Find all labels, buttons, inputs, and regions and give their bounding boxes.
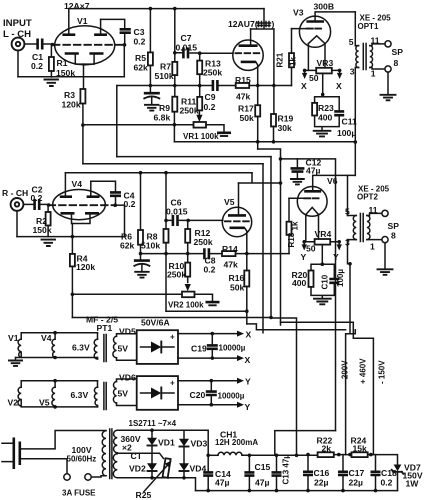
HV bottom wire — [117, 478, 195, 491]
long node wire y85.5 — [117, 85, 292, 87]
svg-text:3A FUSE: 3A FUSE — [62, 489, 96, 498]
AC plug — [2, 443, 12, 461]
svg-text:11: 11 — [371, 36, 380, 46]
svg-text:6.3V: 6.3V — [72, 343, 90, 353]
resistor R8 — [165, 173, 167, 229]
V4 plate left — [60, 195, 72, 198]
resistor R24 — [352, 452, 368, 457]
wire C3 to grid line, down to ground bus — [123, 34, 125, 77]
winding V2 — [18, 387, 21, 406]
V4 cathode — [61, 212, 100, 215]
input shield down — [16, 211, 18, 237]
svg-text:V4: V4 — [41, 333, 52, 343]
svg-text:8: 8 — [391, 231, 396, 241]
top rail stage R — [65, 172, 252, 174]
svg-text:+: + — [170, 333, 175, 342]
svg-text:R14: R14 — [222, 244, 238, 254]
V3 filament — [308, 36, 325, 44]
tube V4 envelope — [53, 190, 106, 220]
svg-text:11: 11 — [369, 205, 378, 215]
PT1 core main — [110, 429, 112, 479]
svg-text:15k: 15k — [353, 444, 368, 454]
capacitor C4 — [110, 192, 121, 195]
resistor R22 — [318, 452, 334, 457]
resistor R6 — [140, 173, 142, 230]
VR3 wiper down — [322, 73, 324, 96]
resistor R14 (horizontal) — [222, 251, 236, 256]
capacitor C9 — [213, 80, 218, 91]
R6 bypass cap — [139, 252, 143, 256]
wire C1 to grid node — [44, 43, 53, 45]
capacitor C6 + wire — [164, 219, 168, 223]
V3 plate wire to OPT1 — [316, 11, 355, 13]
svg-text:SP: SP — [392, 47, 404, 57]
svg-text:50k: 50k — [230, 283, 245, 293]
winding V5b — [52, 387, 55, 406]
Y output wires — [178, 380, 239, 382]
svg-text:5: 5 — [345, 207, 350, 217]
R4 feedback line — [72, 317, 271, 319]
V1 plate left — [62, 33, 75, 36]
R23/C11 box — [315, 97, 340, 131]
svg-text:47µ: 47µ — [215, 478, 230, 488]
svg-text:400: 400 — [292, 278, 307, 288]
VR2 pot — [182, 292, 195, 298]
B+ bus down — [349, 264, 351, 333]
svg-text:C17: C17 — [349, 468, 365, 478]
bridge rectifier VD5 — [137, 330, 178, 364]
svg-text:22µ: 22µ — [314, 478, 329, 488]
resistor R2 — [47, 205, 49, 212]
svg-text:X: X — [301, 81, 307, 91]
svg-text:3: 3 — [350, 67, 355, 77]
svg-text:0.2: 0.2 — [134, 37, 146, 47]
svg-text:47k: 47k — [236, 92, 251, 102]
node line y142.5 — [174, 141, 355, 143]
ground — [42, 240, 56, 246]
capacitor C20 — [210, 379, 214, 383]
VR3 pot — [316, 68, 332, 74]
capacitor C14 — [207, 455, 209, 490]
junction R8-rail — [164, 171, 168, 175]
svg-text:C3: C3 — [134, 27, 145, 37]
svg-text:VR3: VR3 — [317, 58, 334, 68]
svg-text:V5: V5 — [224, 197, 235, 207]
VR1 line from R3 node — [83, 124, 194, 126]
svg-text:OPT1: OPT1 — [358, 22, 379, 31]
svg-text:12AU7(: 12AU7( — [228, 19, 258, 29]
capacitor C3 — [120, 29, 131, 32]
V1 grid dashed — [53, 44, 123, 46]
svg-text:- 200V: - 200V — [341, 360, 350, 384]
svg-text:Y: Y — [301, 252, 307, 262]
svg-text:1S2711 ~7×4: 1S2711 ~7×4 — [129, 419, 177, 428]
OPT1 core — [363, 44, 366, 70]
input jack J2 — [11, 198, 24, 211]
svg-text:VD2: VD2 — [129, 464, 146, 474]
VR4 wiper down — [321, 245, 323, 265]
resistor R10 — [186, 252, 190, 256]
capacitor C16 — [307, 455, 309, 491]
tube V6 — [297, 187, 327, 217]
X output wires — [178, 333, 239, 335]
svg-text:6.8k: 6.8k — [154, 113, 171, 123]
cathode bypass cap (R5 node) — [149, 84, 153, 88]
OPT1 primary coil — [355, 46, 358, 68]
svg-text:47µ: 47µ — [255, 478, 270, 488]
svg-text:V1: V1 — [77, 16, 88, 26]
capacitor C8 — [204, 248, 209, 259]
svg-text:62k: 62k — [134, 63, 149, 73]
svg-text:V2: V2 — [8, 398, 19, 408]
svg-text:VR1 100k: VR1 100k — [183, 132, 219, 141]
junction R13/R11 node — [198, 84, 202, 88]
R11 arrow to VR1 — [198, 110, 200, 115]
svg-text:R18: R18 — [287, 232, 296, 247]
svg-text:50/60Hz: 50/60Hz — [67, 455, 97, 464]
feedback line 2 — [83, 163, 263, 165]
svg-text:R16: R16 — [229, 273, 245, 283]
X arrows — [304, 70, 306, 74]
svg-text:+: + — [170, 379, 175, 388]
input jack J1 — [12, 38, 25, 51]
ground heater row1 — [15, 358, 17, 361]
svg-text:VD6: VD6 — [119, 373, 136, 383]
svg-text:Y: Y — [245, 377, 251, 387]
ground below R23 box — [314, 131, 331, 137]
B+ top wire from bridge to choke — [184, 430, 208, 455]
resistor R3 — [80, 89, 85, 104]
diode VD1 — [151, 430, 153, 437]
svg-text:62k: 62k — [120, 241, 135, 251]
svg-text:VD3: VD3 — [191, 439, 208, 449]
V4 plate right — [87, 195, 100, 198]
diode VD3 — [183, 430, 185, 438]
resistor R5 — [149, 9, 151, 53]
svg-text:C7: C7 — [181, 33, 192, 43]
svg-text:V3: V3 — [293, 8, 304, 18]
svg-text:VR4: VR4 — [315, 229, 332, 239]
V2 plate wire — [251, 9, 274, 29]
OPT1 secondary coil — [370, 46, 373, 68]
-200V to PSU — [275, 431, 336, 456]
SP2 ground — [384, 243, 386, 269]
svg-text:50: 50 — [309, 73, 319, 83]
V2 plate — [239, 44, 258, 47]
svg-text:R3: R3 — [64, 90, 75, 100]
svg-text:5V: 5V — [118, 389, 129, 399]
svg-text:2k: 2k — [322, 444, 332, 454]
resistor R16 — [244, 271, 249, 287]
capacitor C1 — [38, 39, 43, 50]
svg-text:R21: R21 — [276, 52, 285, 67]
cathode lead — [83, 64, 85, 89]
zener VD7 — [394, 465, 402, 472]
capacitor C10 — [329, 279, 339, 283]
wire input shield down — [17, 50, 19, 76]
svg-text:5: 5 — [349, 37, 354, 47]
VR4 pot — [315, 239, 331, 245]
resistor R7 — [174, 9, 176, 62]
V3 plate — [306, 20, 324, 23]
svg-text:400: 400 — [318, 113, 333, 123]
svg-text:R25: R25 — [136, 490, 152, 500]
svg-text:R5: R5 — [135, 53, 146, 63]
wire jack to C1 — [24, 43, 36, 45]
svg-text:1k: 1k — [291, 221, 300, 230]
winding V1 — [18, 339, 21, 357]
svg-text:SP: SP — [388, 221, 400, 231]
svg-text:120k: 120k — [62, 100, 81, 110]
OPT2 primary bottom to B+ — [348, 240, 351, 264]
feedback line v from y85.5 left end — [116, 86, 118, 157]
svg-text:): ) — [272, 19, 275, 29]
SP ground — [387, 72, 389, 94]
capacitor C15 — [248, 455, 250, 490]
svg-text:R15: R15 — [235, 75, 251, 85]
svg-text:12H 200mA: 12H 200mA — [215, 438, 258, 447]
resistor R20 — [309, 271, 314, 287]
svg-text:Y: Y — [245, 402, 251, 412]
svg-text:100µ: 100µ — [337, 128, 356, 138]
B2 to choke node — [271, 318, 297, 455]
bundle B1 corner — [262, 164, 264, 333]
svg-text:OPT2: OPT2 — [357, 193, 378, 202]
svg-text:0.2: 0.2 — [31, 193, 43, 203]
svg-text:R9: R9 — [159, 103, 170, 113]
5V winding row1 — [113, 336, 117, 357]
svg-text:250k: 250k — [167, 270, 186, 280]
svg-text:8: 8 — [394, 58, 399, 68]
node line y253.6 — [141, 253, 290, 255]
svg-text:12A×7: 12A×7 — [64, 1, 90, 11]
junction R6-rail — [139, 171, 143, 175]
ground below R20 box — [314, 299, 331, 305]
svg-text:VD5: VD5 — [119, 327, 136, 337]
svg-text:100V: 100V — [72, 445, 92, 455]
R25 variable — [163, 458, 171, 478]
R16 corner staircase — [247, 324, 344, 330]
svg-text:R7: R7 — [160, 62, 171, 72]
V5 cathode — [230, 227, 245, 230]
svg-text:+ 460V: + 460V — [359, 358, 368, 384]
junction R5-rail — [149, 7, 153, 11]
R20/C10 box — [311, 264, 334, 298]
V4 grid dashed — [49, 204, 114, 206]
capacitor C13 — [276, 455, 278, 490]
B+ drop from OPT1 — [354, 68, 356, 176]
ground — [45, 80, 59, 87]
filament line X — [305, 69, 340, 71]
VR2 line — [72, 293, 182, 295]
B1 to B+ bus — [263, 329, 346, 331]
V5 plate — [228, 214, 246, 217]
svg-text:50V/6A: 50V/6A — [141, 318, 170, 328]
filament line Y — [304, 241, 339, 243]
top rail stage1 — [69, 8, 264, 10]
R8 drop line — [166, 310, 247, 312]
svg-text:VR2 100k: VR2 100k — [168, 301, 204, 310]
svg-text:PT1: PT1 — [97, 323, 113, 333]
resistor R13 — [197, 61, 202, 75]
tube V1 envelope — [55, 26, 115, 65]
V6 grid — [304, 197, 318, 199]
V3 grid — [307, 28, 321, 30]
capacitor C2 — [35, 199, 40, 210]
capacitor C12 — [281, 159, 298, 168]
svg-text:X: X — [336, 81, 342, 91]
svg-text:5V: 5V — [118, 344, 129, 354]
OPT2 core — [360, 214, 363, 242]
resistor R1 — [50, 45, 52, 57]
svg-text:10000µ: 10000µ — [219, 344, 246, 353]
svg-text:C15: C15 — [255, 462, 271, 472]
svg-text:X: X — [245, 355, 251, 365]
resistor R23 — [312, 103, 317, 116]
V6 plate — [304, 190, 321, 193]
feedback line 1 — [117, 156, 271, 158]
svg-text:R17: R17 — [238, 104, 254, 114]
resistor R9 — [173, 84, 177, 88]
SP terminals — [385, 41, 391, 47]
svg-text:INPUT: INPUT — [3, 18, 32, 29]
5V winding row2 — [113, 382, 116, 404]
tube V5 — [222, 207, 251, 236]
fuse — [64, 474, 70, 480]
svg-text:VD1: VD1 — [158, 438, 175, 448]
svg-text:R23: R23 — [318, 103, 334, 113]
HV top wire — [117, 429, 184, 431]
capacitor C17 — [342, 455, 344, 491]
wire to C4 — [91, 181, 116, 191]
resistor R21 — [291, 29, 293, 53]
-200V bus from C12 — [297, 159, 335, 431]
svg-text:C20: C20 — [190, 390, 206, 400]
svg-text:C19: C19 — [191, 344, 207, 354]
svg-text:C10: C10 — [321, 274, 330, 289]
svg-text:1k: 1k — [289, 57, 298, 66]
svg-text:250k: 250k — [180, 106, 199, 116]
bridge rectifier VD6 — [137, 376, 178, 410]
svg-text:250k: 250k — [203, 68, 222, 78]
svg-text:R19: R19 — [278, 114, 294, 124]
svg-text:0.2: 0.2 — [204, 102, 216, 112]
svg-text:510k: 510k — [141, 241, 160, 251]
svg-text:50k: 50k — [240, 113, 255, 123]
svg-text:0.015: 0.015 — [166, 207, 188, 217]
svg-text:47k: 47k — [224, 260, 239, 270]
junction R8-cathode line — [164, 252, 168, 256]
PT1 primary — [102, 431, 106, 476]
svg-text:- 150V: - 150V — [378, 360, 387, 384]
V5 grid dashes — [225, 220, 250, 222]
tube V3 — [299, 16, 330, 47]
resistor R4 — [70, 254, 75, 267]
svg-text:1: 1 — [370, 242, 375, 252]
V6 filament — [306, 207, 319, 214]
resistor R18 — [288, 198, 290, 221]
svg-text:C16: C16 — [314, 468, 330, 478]
svg-text:0.2: 0.2 — [31, 61, 43, 71]
svg-text:R1: R1 — [57, 58, 68, 68]
svg-text:120k: 120k — [76, 262, 95, 272]
+460V bus — [346, 330, 356, 455]
winding V4 — [52, 339, 55, 357]
V2 cathode — [241, 61, 256, 64]
V1 cathode bars — [65, 52, 104, 55]
svg-text:100µ: 100µ — [336, 269, 345, 287]
svg-text:X: X — [246, 330, 252, 340]
Y arrows — [303, 242, 305, 246]
svg-text:0.015: 0.015 — [176, 43, 198, 53]
PT1 HV secondary 360Vx2 — [113, 430, 117, 478]
svg-text:30k: 30k — [278, 123, 293, 133]
svg-text:1: 1 — [371, 69, 376, 79]
resistor R17 — [255, 105, 260, 116]
svg-text:47µ: 47µ — [306, 166, 321, 176]
svg-text:0.2: 0.2 — [381, 478, 393, 488]
CT wire — [117, 453, 163, 458]
grid wire to V5 — [188, 219, 223, 221]
svg-text:V5: V5 — [39, 398, 50, 408]
svg-text:C13 47µ: C13 47µ — [282, 454, 291, 485]
diode VD4 — [179, 463, 189, 470]
svg-text:10000µ: 10000µ — [218, 392, 245, 401]
ground bus under V4 — [17, 236, 125, 238]
bundle B2 corner — [270, 157, 272, 318]
capacitor C11 — [334, 111, 344, 115]
wire right plate to C3 — [101, 19, 125, 28]
diode VD2 — [147, 463, 157, 470]
bottom rail — [196, 490, 398, 492]
capacitor C18 — [375, 455, 377, 491]
resistor R11 — [197, 97, 202, 111]
svg-text:1W: 1W — [406, 479, 420, 489]
R17 jog to bundle B3 — [258, 149, 281, 325]
PT1 core row2 — [104, 383, 106, 410]
svg-text:C18: C18 — [381, 468, 397, 478]
resistor R12 — [185, 229, 190, 243]
svg-text:300B: 300B — [314, 2, 335, 12]
svg-text:22µ: 22µ — [349, 478, 364, 488]
VR1 pot — [194, 122, 207, 128]
resistor R15 (horizontal) — [236, 83, 250, 88]
svg-text:250k: 250k — [194, 237, 213, 247]
svg-text:R - CH: R - CH — [2, 188, 28, 198]
V2 grid dashes — [236, 52, 261, 54]
SP2 terminals — [382, 210, 388, 216]
grid wire to V2 — [200, 52, 233, 54]
OPT2 secondary — [367, 216, 370, 240]
PT1 core row1 — [104, 335, 106, 362]
svg-text:0.2: 0.2 — [204, 265, 216, 275]
svg-text:C9: C9 — [205, 92, 216, 102]
ground bus wire under stage1 — [18, 76, 124, 78]
svg-text:V4: V4 — [72, 179, 83, 189]
OPT2 primary coil — [353, 216, 356, 240]
V1 plate right — [94, 33, 107, 36]
svg-text:6.3V: 6.3V — [71, 390, 89, 400]
tube V2 — [233, 40, 263, 70]
svg-text:50: 50 — [306, 244, 316, 254]
svg-text:150k: 150k — [33, 225, 52, 235]
B3 / -150V bus — [281, 322, 374, 454]
svg-text:510k: 510k — [155, 71, 174, 81]
resistor R19 — [271, 114, 276, 127]
capacitor C7 + wire — [173, 51, 177, 55]
capacitor C19 — [211, 332, 215, 336]
svg-text:0.2: 0.2 — [124, 199, 136, 209]
